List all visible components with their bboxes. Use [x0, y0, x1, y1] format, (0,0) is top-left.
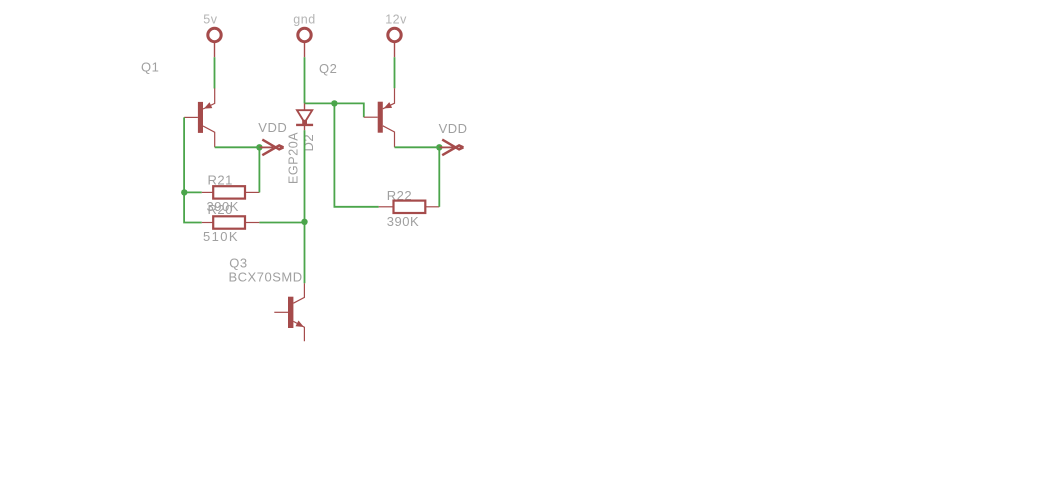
junction VDD left	[256, 144, 262, 150]
junction R21 left	[181, 189, 187, 195]
wire junction to R21	[184, 191, 202, 193]
svg-text:510K: 510K	[203, 229, 239, 244]
svg-text:Q1: Q1	[141, 59, 159, 74]
wire gnd line to Q2 base branch	[305, 103, 364, 117]
wire R22 right up to VDD right	[438, 147, 440, 207]
svg-text:gnd: gnd	[293, 12, 315, 26]
svg-text:VDD: VDD	[439, 121, 468, 136]
transistor Q2	[364, 88, 395, 147]
svg-text:12v: 12v	[385, 12, 407, 26]
wire 5v to Q1 emitter	[214, 57, 216, 88]
pin 12V	[388, 28, 401, 57]
wire Q2 collector to VDD right	[395, 146, 437, 148]
svg-text:Q3: Q3	[229, 256, 247, 271]
svg-text:BCX70SMD: BCX70SMD	[229, 270, 303, 285]
pin 5V	[208, 28, 221, 57]
wire R20 right to gnd line	[259, 222, 304, 224]
wire junction down to R22	[334, 103, 378, 206]
wire Q1 base down	[184, 117, 202, 222]
transistor Q3	[274, 283, 304, 341]
supply VDD left	[259, 140, 284, 156]
svg-text:R20: R20	[208, 202, 233, 217]
wire D2 cathode down to Q3	[304, 130, 306, 283]
junction VDD right	[436, 144, 442, 150]
junction gnd branch	[331, 100, 337, 106]
svg-text:EGP20A: EGP20A	[287, 132, 301, 184]
svg-text:VDD: VDD	[258, 120, 287, 135]
wire gnd to D2 anode	[304, 57, 306, 103]
wire 12v to Q2 emitter	[394, 57, 396, 88]
svg-text:390K: 390K	[387, 214, 419, 229]
resistor R22	[379, 201, 440, 213]
wire VDD to R21 right	[258, 147, 260, 192]
svg-text:Q2: Q2	[319, 61, 337, 76]
svg-text:D2: D2	[301, 134, 316, 152]
svg-text:5v: 5v	[203, 12, 217, 26]
junction R20 gnd	[301, 219, 307, 225]
pin GND	[298, 28, 311, 57]
supply VDD right	[439, 140, 464, 156]
resistor R20	[202, 216, 260, 228]
resistor R21	[202, 186, 260, 198]
diode D2	[296, 103, 313, 130]
transistor Q1	[184, 88, 215, 147]
wire Q1 collector to VDD	[215, 146, 257, 148]
